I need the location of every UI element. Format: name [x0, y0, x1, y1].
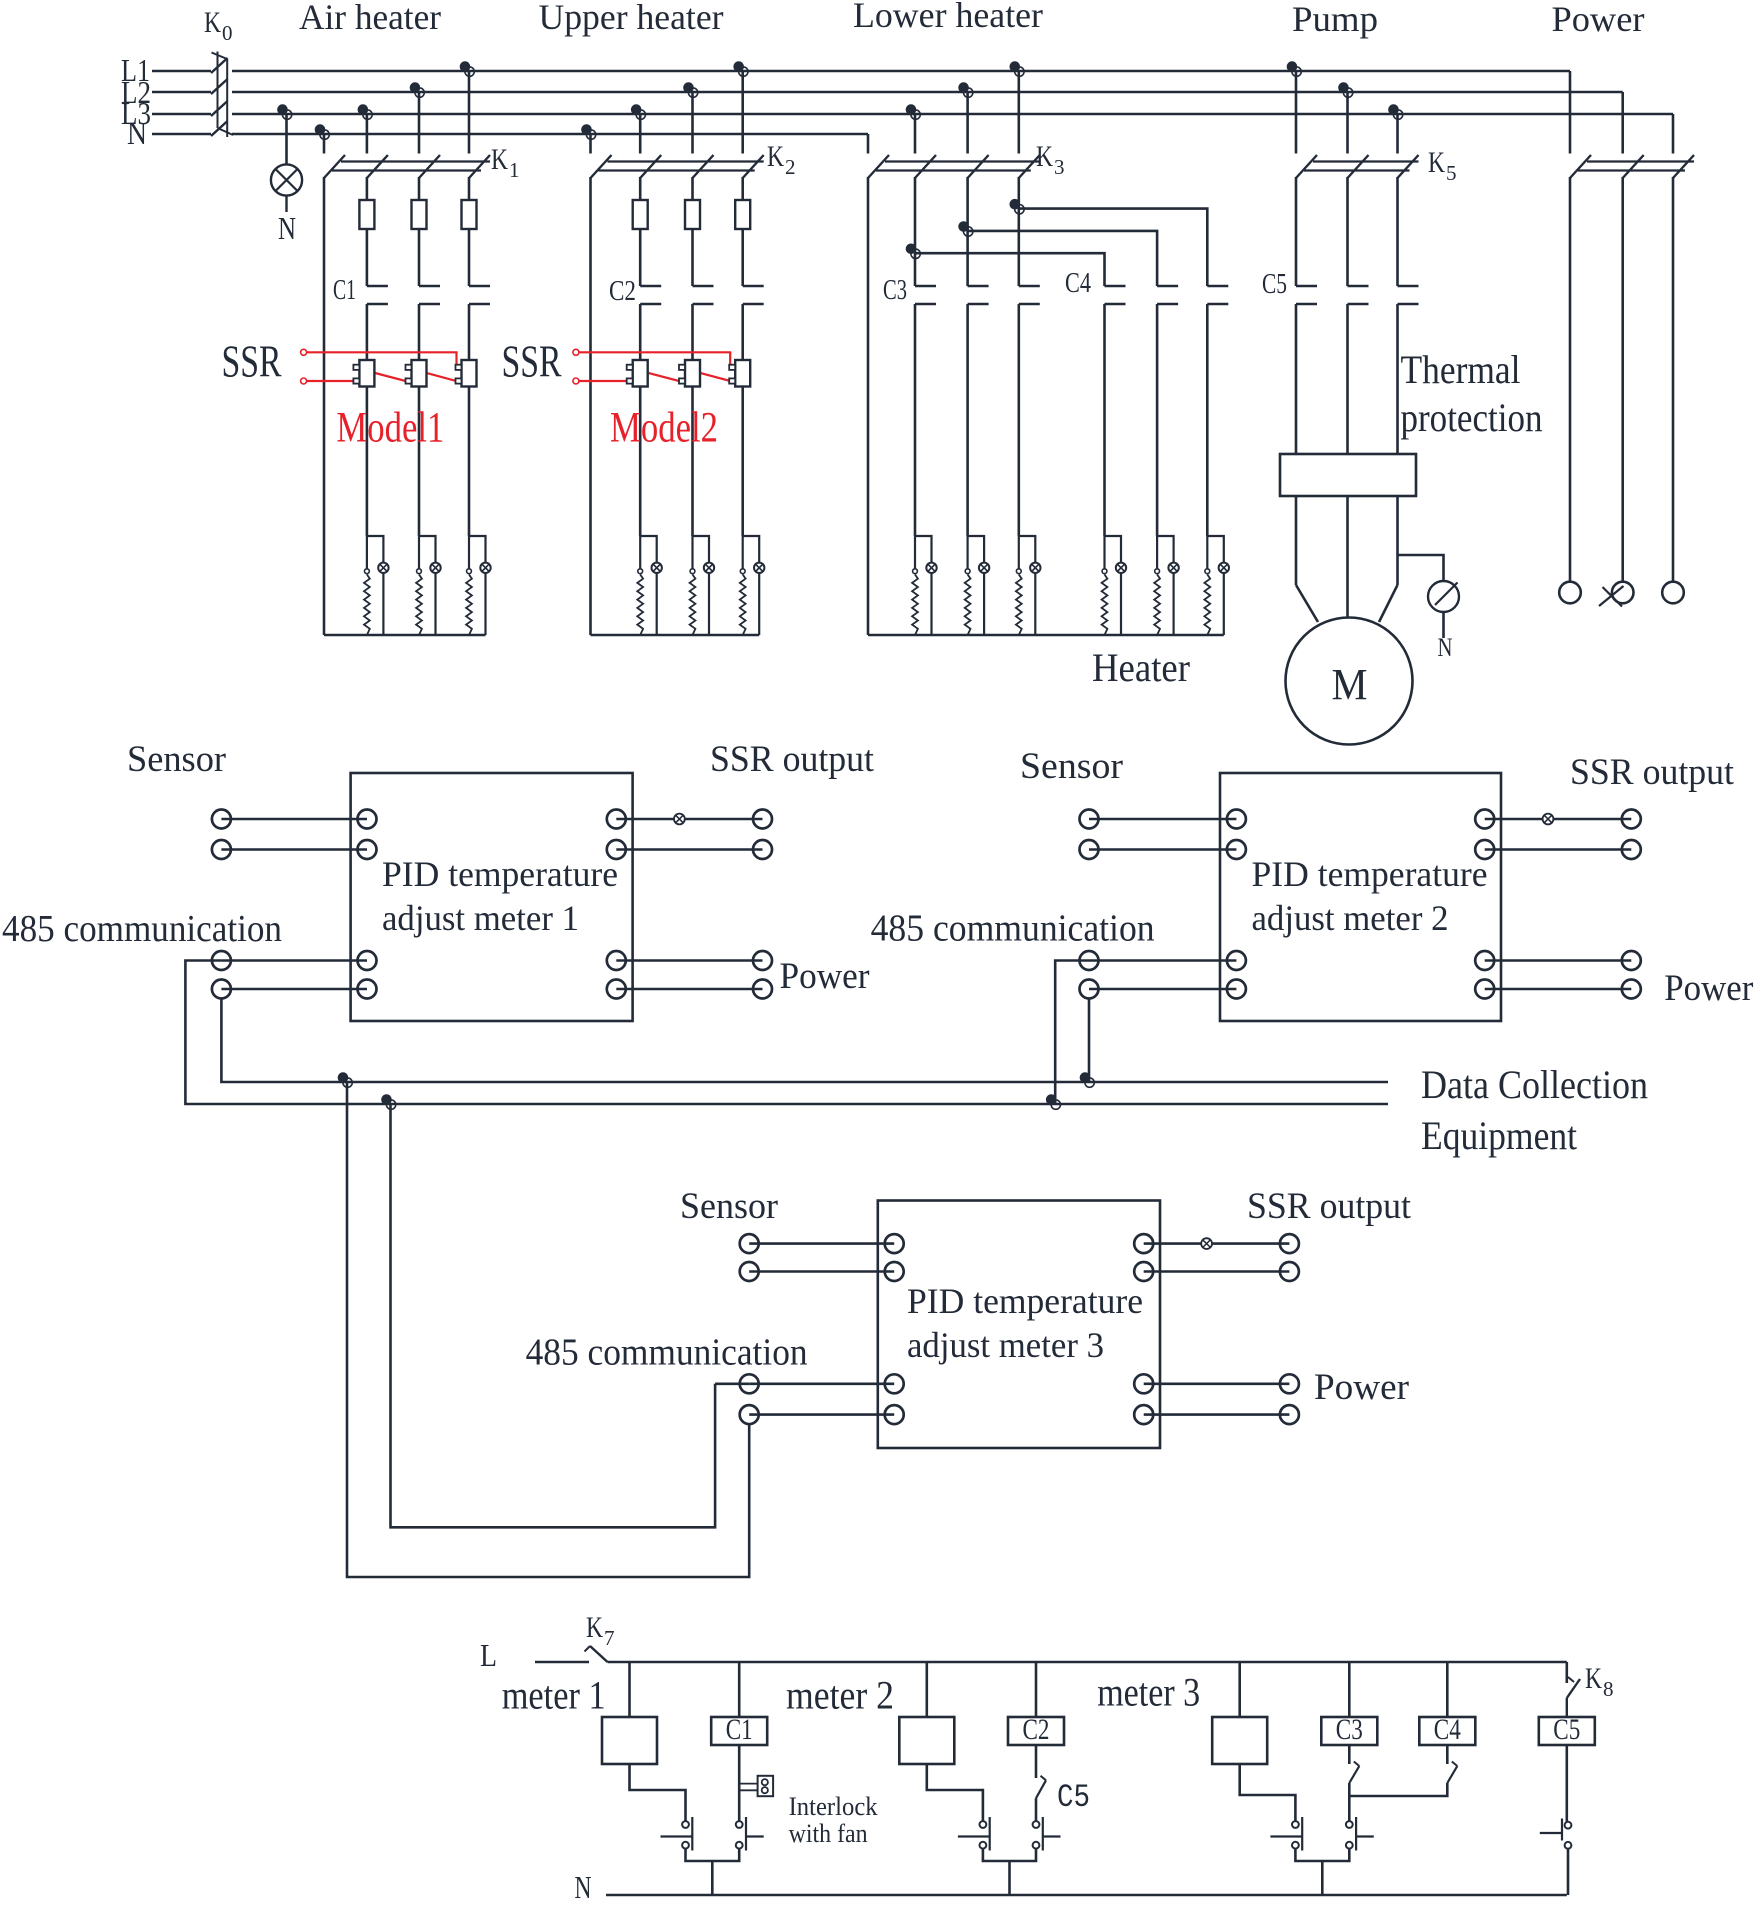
contactor contact C2-2	[693, 286, 714, 304]
switch blade K1 pole 4	[469, 155, 490, 178]
svg-text:Model2: Model2	[610, 405, 718, 452]
wire C4 coil down	[1446, 1745, 1449, 1764]
meter3 485 wire 1	[740, 1374, 904, 1393]
contactor contact C3-2	[968, 286, 989, 304]
svg-text:Interlock: Interlock	[789, 1792, 878, 1821]
svg-text:Air heater: Air heater	[299, 0, 441, 37]
meter3 rung bottom join	[1295, 1849, 1349, 1895]
switch blade K3 pole 1	[868, 155, 889, 178]
wire contact C3-2 down to heater	[966, 304, 969, 536]
meter2 485 wire 1	[1080, 951, 1246, 970]
switch blade K power pole 1	[1570, 155, 1591, 178]
fuse F1-2	[412, 200, 427, 229]
contactor contact C1-3	[469, 286, 490, 304]
PID meter 2 box	[1220, 773, 1501, 1021]
contactor contact C3-3	[1019, 286, 1040, 304]
svg-text:K: K	[767, 140, 784, 173]
wire power pole 3 down to socket	[1672, 177, 1675, 582]
control L bus	[608, 1661, 1567, 1664]
thermal protection relay box	[1280, 454, 1416, 496]
meter1 485 wire 1	[212, 951, 377, 970]
wire C5 aux to contact	[1035, 1798, 1038, 1821]
wire C1 coil to interlock contact	[738, 1745, 741, 1821]
wire fuse to contact C2-1	[639, 229, 642, 286]
svg-text:Pump: Pump	[1292, 0, 1378, 39]
junction dot feeding K2 pole 3	[683, 82, 698, 97]
indicator lamp	[271, 164, 302, 212]
svg-text:meter 3: meter 3	[1097, 1670, 1200, 1715]
wire drop to C3 coil	[1348, 1662, 1351, 1717]
wire C5 contact to N bus	[1567, 1849, 1570, 1895]
svg-text:C5: C5	[1057, 1779, 1090, 1816]
svg-text:5: 5	[1446, 161, 1457, 185]
wire K3 pole3 down to contact C3-2	[966, 177, 969, 286]
C2 coil box	[1008, 1717, 1064, 1745]
switch blade K1 pole 3	[419, 155, 440, 178]
SSR feed wires group2 (red)	[573, 349, 730, 384]
fuse F2-2	[685, 200, 700, 229]
wire drop to C4 coil	[1446, 1662, 1449, 1717]
meter1 485 wire 2	[212, 980, 377, 999]
contactor switch K2 tie bar	[599, 162, 764, 171]
SSR feed wires group1 (red)	[301, 349, 457, 384]
wire K1 pole1 neutral down to heater bus	[323, 177, 326, 635]
meter1 coil box	[602, 1717, 657, 1764]
wire contact C4-3 down to heater	[1206, 304, 1209, 536]
wire K5 pole3 down to contact C5-3	[1396, 177, 1399, 286]
switch blade K5 pole 2	[1348, 155, 1369, 178]
junction dot feeding K3 pole 2	[906, 104, 921, 119]
C1 coil box	[711, 1717, 767, 1745]
SSR unit group2-2	[679, 360, 700, 387]
svg-text:Equipment: Equipment	[1421, 1113, 1577, 1158]
wire drop to meter1 coil	[628, 1662, 631, 1717]
junction dot feeding K2 pole 2	[631, 104, 646, 119]
meter3 SSR output wire 2	[1134, 1262, 1299, 1281]
wire C5 coil to contact	[1566, 1745, 1569, 1822]
wire C4 feed 1	[915, 253, 1105, 286]
meter2 sensor wire 2	[1080, 840, 1246, 859]
NO contact C1	[736, 1817, 764, 1851]
wire K3 pole1 neutral down to heater bus	[867, 177, 870, 635]
switch blade K5 pole 1	[1296, 155, 1317, 178]
svg-text:C5: C5	[1262, 269, 1287, 300]
meter1 power wire 2	[607, 980, 772, 999]
svg-text:Power: Power	[1552, 0, 1645, 39]
wire contact C5-3 down to thermal relay	[1396, 304, 1399, 454]
svg-text:Power: Power	[780, 956, 870, 997]
svg-text:0: 0	[222, 21, 233, 45]
wire stub K1 pole 1	[323, 134, 326, 154]
wire K1 pole2 down to fuse	[366, 177, 369, 200]
plug cross on middle socket	[1599, 586, 1624, 607]
svg-text:Sensor: Sensor	[680, 1186, 778, 1227]
svg-text:Data Collection: Data Collection	[1421, 1062, 1648, 1107]
contactor contact C4-2	[1157, 286, 1178, 304]
SSR unit group2-1	[627, 360, 648, 387]
wire K2 pole2 down to fuse	[639, 177, 642, 200]
meter1 rung bottom join	[686, 1849, 740, 1895]
wire meter2 485-B to upper data bus	[1088, 999, 1091, 1083]
wire meter2 485-A to lower data bus	[1055, 961, 1089, 1105]
wire K3 pole4 down to contact C3-3	[1017, 177, 1020, 286]
wire K3 pole2 down to contact C3-1	[914, 177, 917, 286]
wire fuse to contact C1-3	[468, 229, 471, 286]
junction dot feeding K5 pole 3	[1388, 104, 1403, 119]
wire fuse to contact C2-3	[741, 229, 744, 286]
meter3 SSR output circle-x symbol	[1201, 1238, 1212, 1249]
heater element group1-1	[364, 536, 389, 635]
meter1 power wire 1	[607, 951, 772, 970]
wire power pole 2 down to socket	[1621, 177, 1624, 582]
wire C4 feed 2	[968, 231, 1158, 286]
svg-text:485 communication: 485 communication	[871, 908, 1155, 950]
C4 coil box	[1419, 1717, 1475, 1745]
switch blade K power pole 3	[1673, 155, 1694, 178]
heater bus group 2	[591, 634, 760, 637]
meter1 SSR output wire 2	[607, 840, 772, 859]
svg-text:C4: C4	[1065, 268, 1091, 299]
svg-text:N: N	[1438, 633, 1453, 662]
wire stub K1 pole 3	[418, 92, 421, 154]
svg-text:C2: C2	[1023, 1713, 1050, 1746]
svg-text:adjust meter 3: adjust meter 3	[907, 1325, 1104, 1365]
switch blade K1 pole 2	[367, 155, 388, 178]
svg-text:K: K	[1036, 140, 1053, 173]
svg-text:SSR: SSR	[222, 337, 282, 387]
wire drop to meter3 coil	[1238, 1662, 1241, 1717]
wires thermal relay to motor	[1296, 496, 1398, 622]
svg-text:3: 3	[1054, 155, 1065, 179]
wire L elbow down to power pole 3	[1672, 114, 1675, 154]
svg-text:SSR: SSR	[502, 337, 562, 387]
heater element group2-1	[637, 536, 662, 635]
PID meter 1 box	[351, 773, 633, 1021]
switch K8	[1567, 1677, 1580, 1717]
meter3 485 wire 2	[740, 1405, 904, 1424]
wire stub K2 pole 1	[589, 134, 592, 154]
wire hour meter to N	[1442, 612, 1445, 638]
SSR unit group2-3	[729, 360, 750, 387]
main switch K0	[211, 52, 233, 138]
meter3 SSR output wire 1	[1134, 1234, 1299, 1253]
meter3 power wire 1	[1134, 1374, 1299, 1393]
bus line N	[152, 133, 868, 136]
contactor switch K1 tie bar	[332, 162, 490, 171]
SSR unit group1-3	[456, 360, 477, 387]
svg-text:7: 7	[604, 1626, 615, 1650]
meter2 SSR output wire 1	[1475, 810, 1641, 829]
junction dot on L3 feeding lamp	[277, 104, 292, 119]
meter2 coil box	[899, 1717, 954, 1764]
svg-text:adjust meter 2: adjust meter 2	[1252, 898, 1449, 938]
wire stub K1 pole 4	[468, 71, 471, 154]
svg-text:N: N	[278, 210, 296, 246]
svg-text:8: 8	[1603, 1677, 1614, 1701]
junction dot feeding K1 pole 4	[460, 61, 475, 76]
wire N line elbow down to K3 pole 1	[867, 134, 870, 154]
junction dot feeding K3 pole 3	[958, 82, 973, 97]
wire stub K1 pole 2	[366, 114, 369, 154]
meter3 power wire 2	[1134, 1405, 1299, 1424]
fuse F2-3	[735, 200, 750, 229]
bus line L2	[152, 91, 1623, 94]
contactor contact C4-3	[1207, 286, 1228, 304]
junction dot feeding K2 pole 1	[581, 124, 596, 139]
wire C2 coil down	[1035, 1745, 1038, 1778]
meter3 sensor wire 2	[740, 1262, 904, 1281]
junction dot feeding K1 pole 1	[315, 124, 330, 139]
heater bus group 1	[324, 634, 486, 637]
svg-text:C1: C1	[726, 1713, 753, 1746]
heater element group3-1	[912, 536, 937, 635]
contactor contact C3-1	[915, 286, 936, 304]
wire L elbow down to power pole 2	[1621, 92, 1624, 154]
wire meter2 coil to contact	[927, 1764, 983, 1821]
svg-text:1: 1	[509, 158, 520, 182]
meter1 SSR output circle-x symbol	[674, 814, 685, 825]
wire meter1 coil to contact	[630, 1764, 686, 1821]
contactor contact C5-3	[1398, 286, 1419, 304]
svg-text:K: K	[204, 6, 221, 39]
svg-text:SSR output: SSR output	[1570, 752, 1735, 793]
switch blade K3 pole 3	[968, 155, 989, 178]
switch blade K2 pole 4	[743, 155, 764, 178]
svg-text:M: M	[1332, 660, 1368, 709]
junction dot lower bus to meter3	[381, 1094, 396, 1109]
meter2 power wire 1	[1475, 951, 1641, 970]
meter2 SSR output circle-x symbol	[1543, 814, 1554, 825]
contactor contact C5-2	[1348, 286, 1369, 304]
wire contact C1-3 down to heater	[468, 304, 471, 536]
svg-text:meter 1: meter 1	[502, 1673, 606, 1718]
NO contact C5 rung	[1540, 1819, 1572, 1849]
junction dot feeding K5 pole 1	[1287, 61, 1302, 76]
meter2 power wire 2	[1475, 980, 1641, 999]
wire stub K2 pole 4	[741, 71, 744, 154]
wire contact C1-1 down to heater	[366, 304, 369, 536]
wire contact C1-2 down to heater	[418, 304, 421, 536]
wire contact C4-1 down to heater	[1103, 304, 1106, 536]
SSR unit group1-1	[353, 360, 374, 387]
riser upper bus down to meter3 485-B	[347, 1082, 749, 1577]
wire contact C4-2 down to heater	[1156, 304, 1159, 536]
junction dot feeding K1 pole 3	[410, 82, 425, 97]
wire K1 pole4 down to fuse	[468, 177, 471, 200]
svg-text:adjust meter 1: adjust meter 1	[382, 898, 579, 938]
meter1 sensor wire 2	[212, 840, 377, 859]
heater element group3-C4-3	[1204, 536, 1229, 635]
wire K5 pole2 down to contact C5-2	[1346, 177, 1349, 286]
switch blade K3 pole 4	[1019, 155, 1040, 178]
svg-text:protection: protection	[1401, 395, 1543, 440]
C3 coil box	[1321, 1717, 1377, 1745]
svg-text:Thermal: Thermal	[1401, 347, 1521, 392]
heater element group1-3	[466, 536, 491, 635]
svg-text:Lower heater: Lower heater	[853, 0, 1043, 35]
wire drop to C2 coil	[1035, 1662, 1038, 1717]
wire K2 pole1 neutral down to heater bus	[589, 177, 592, 635]
contactor contact C1-1	[367, 286, 388, 304]
wire drop to meter2 coil	[925, 1662, 928, 1717]
wire contact C5-1 down to thermal relay	[1295, 304, 1298, 454]
svg-text:Model1: Model1	[336, 405, 444, 452]
junction dot feeding K1 pole 2	[358, 104, 373, 119]
svg-text:C3: C3	[1336, 1713, 1363, 1746]
aux contact on C4 rung	[1447, 1762, 1457, 1784]
svg-text:N: N	[127, 115, 147, 151]
socket circle 2	[1612, 582, 1634, 604]
switch blade K3 pole 2	[915, 155, 936, 178]
svg-text:PID temperature: PID temperature	[1252, 854, 1488, 894]
wire C4 rung join to C3 rung	[1349, 1783, 1447, 1796]
svg-text:Power: Power	[1664, 968, 1753, 1009]
switch blade K5 pole 3	[1398, 155, 1419, 178]
junction dot C4 feed 3	[1010, 199, 1025, 214]
contactor switch K3 tie bar	[876, 162, 1040, 171]
contactor contact C5-1	[1296, 286, 1317, 304]
svg-text:PID temperature: PID temperature	[382, 854, 618, 894]
svg-text:485 communication: 485 communication	[526, 1332, 808, 1374]
lower data bus	[391, 1103, 1389, 1106]
svg-text:Upper heater: Upper heater	[539, 0, 724, 37]
fuse F2-1	[633, 200, 648, 229]
svg-text:Power: Power	[1314, 1367, 1409, 1408]
C5 coil box	[1539, 1717, 1595, 1745]
NO contact meter1	[661, 1817, 693, 1851]
NO contact meter3	[1270, 1817, 1302, 1851]
svg-text:Sensor: Sensor	[127, 739, 226, 780]
svg-text:C1: C1	[333, 275, 356, 306]
wire fuse to contact C2-2	[691, 229, 694, 286]
svg-text:PID temperature: PID temperature	[907, 1281, 1143, 1321]
meter2 sensor wire 1	[1080, 810, 1246, 829]
wire stub K3 pole 4	[1017, 71, 1020, 154]
svg-text:C5: C5	[1553, 1713, 1580, 1746]
wire stub K5 pole 1	[1295, 71, 1298, 154]
junction dot C4 feed 1	[906, 244, 921, 259]
contactor contact C1-2	[419, 286, 440, 304]
svg-text:C4: C4	[1434, 1713, 1461, 1746]
wire C3 rung to contact	[1348, 1783, 1351, 1821]
aux contact on C3 rung	[1349, 1762, 1359, 1784]
svg-text:485 communication: 485 communication	[2, 908, 282, 950]
motor M	[1286, 618, 1413, 745]
upper data bus	[347, 1081, 1388, 1084]
wire C3 coil down	[1348, 1745, 1351, 1764]
wire contact C2-2 down to heater	[691, 304, 694, 536]
svg-text:L: L	[480, 1637, 497, 1673]
wire to hour meter	[1398, 555, 1444, 581]
junction dot lower bus meter2	[1046, 1094, 1061, 1109]
junction dot feeding K2 pole 4	[733, 61, 748, 76]
svg-text:Heater: Heater	[1092, 645, 1190, 690]
control L lead	[535, 1661, 589, 1664]
junction dot upper bus to meter3	[338, 1072, 353, 1087]
wire meter3 485-A lead	[715, 1383, 749, 1386]
wire stub K5 pole 2	[1346, 92, 1349, 154]
junction dot feeding K3 pole 4	[1010, 61, 1025, 76]
svg-text:SSR output: SSR output	[1247, 1186, 1412, 1227]
wire fuse to contact C1-1	[366, 229, 369, 286]
svg-text:with fan: with fan	[789, 1819, 868, 1848]
wire L elbow down to power pole 1	[1569, 71, 1572, 154]
heater element group3-3	[1016, 536, 1041, 635]
hour meter dial	[1428, 581, 1459, 612]
fuse F1-1	[359, 200, 374, 229]
control N bus	[606, 1894, 1567, 1897]
svg-text:K: K	[586, 1611, 603, 1644]
svg-text:C2: C2	[609, 276, 636, 307]
riser lower bus down to meter3 485-A	[391, 1104, 716, 1527]
wire stub K2 pole 2	[639, 114, 642, 154]
SSR unit group1-2	[406, 360, 427, 387]
meter1 sensor wire 1	[212, 810, 377, 829]
meter3 sensor wire 1	[740, 1234, 904, 1253]
wire meter1 485-B to upper data bus	[221, 999, 347, 1083]
svg-text:K: K	[491, 143, 508, 176]
heater element group3-C4-2	[1154, 536, 1179, 635]
svg-text:C3: C3	[883, 275, 907, 306]
wire meter1 485-A to lower data bus	[185, 961, 390, 1105]
wire K1 pole3 down to fuse	[418, 177, 421, 200]
wire contact C2-3 down to heater	[741, 304, 744, 536]
svg-text:K: K	[1585, 1662, 1602, 1695]
contactor contact C4-1	[1105, 286, 1126, 304]
bus line L3	[152, 113, 1673, 116]
wire power pole 1 down to socket	[1569, 177, 1572, 582]
meter3 coil box	[1212, 1717, 1267, 1764]
contactor contact C2-1	[640, 286, 661, 304]
wire contact C3-1 down to heater	[914, 304, 917, 536]
wire stub K5 pole 3	[1396, 114, 1399, 154]
switch blade K2 pole 2	[640, 155, 661, 178]
bus line L1	[152, 70, 1570, 73]
NO contact C3/C4	[1346, 1817, 1374, 1851]
meter2 rung bottom join	[983, 1849, 1036, 1895]
wire fuse to contact C1-2	[418, 229, 421, 286]
wire contact C5-2 down to thermal relay	[1346, 304, 1349, 454]
meter2 SSR output wire 2	[1475, 840, 1641, 859]
socket circle 3	[1662, 582, 1684, 604]
heater element group1-2	[416, 536, 441, 635]
fuse F1-3	[462, 200, 477, 229]
junction dot C4 feed 2	[958, 221, 973, 236]
aux contact C5 (on C2 rung)	[1036, 1776, 1046, 1798]
svg-text:meter 2: meter 2	[786, 1673, 894, 1718]
wire contact C2-1 down to heater	[639, 304, 642, 536]
fan interlock symbol	[741, 1776, 774, 1796]
wire lamp feed	[285, 114, 288, 165]
junction dot upper bus meter2	[1080, 1072, 1095, 1087]
svg-text:Sensor: Sensor	[1020, 746, 1123, 787]
NO contact meter2	[958, 1817, 990, 1851]
wire meter3 coil to contact	[1240, 1764, 1296, 1821]
switch blade K power pole 2	[1623, 155, 1644, 178]
wire stub K3 pole 3	[966, 92, 969, 154]
contactor contact C2-3	[743, 286, 764, 304]
switch blade K2 pole 3	[693, 155, 714, 178]
wire K2 pole4 down to fuse	[741, 177, 744, 200]
wire stub K2 pole 3	[691, 92, 694, 154]
svg-text:N: N	[575, 1869, 592, 1900]
wire K2 pole3 down to fuse	[691, 177, 694, 200]
contactor switch K5 tie bar	[1304, 162, 1419, 171]
meter2 485 wire 2	[1080, 980, 1246, 999]
switch K7	[585, 1646, 608, 1662]
svg-text:K: K	[1428, 146, 1445, 179]
switch blade K1 pole 1	[324, 155, 345, 178]
